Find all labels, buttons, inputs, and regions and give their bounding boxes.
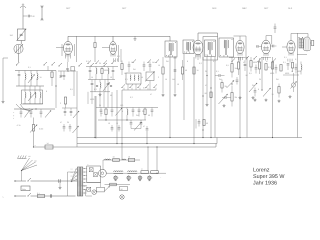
svg-text:0,1: 0,1: [283, 61, 286, 64]
svg-text:60: 60: [33, 15, 35, 18]
svg-text:50: 50: [206, 122, 208, 125]
svg-text:1M: 1M: [235, 67, 238, 70]
svg-text:2M: 2M: [166, 60, 169, 63]
svg-text:50: 50: [110, 94, 112, 97]
svg-text:10: 10: [128, 156, 130, 159]
svg-text:1M: 1M: [100, 112, 103, 115]
svg-text:47: 47: [150, 93, 152, 96]
svg-text:AF7: AF7: [122, 7, 127, 10]
svg-text:10: 10: [116, 122, 118, 125]
svg-text:15: 15: [91, 76, 93, 79]
svg-text:0,1: 0,1: [37, 192, 40, 195]
svg-text:47: 47: [60, 121, 62, 124]
svg-text:5000: 5000: [270, 72, 274, 75]
svg-text:15: 15: [272, 93, 274, 96]
svg-text:0,5: 0,5: [249, 72, 252, 75]
svg-text:5000: 5000: [253, 61, 257, 64]
svg-text:+: +: [118, 177, 119, 180]
svg-text:220: 220: [71, 179, 73, 181]
svg-text:1M: 1M: [152, 61, 155, 64]
svg-text:125: 125: [71, 172, 73, 174]
svg-text:+: +: [131, 177, 132, 180]
svg-text:8: 8: [122, 110, 123, 113]
svg-text:15: 15: [40, 76, 42, 79]
svg-text:0,3: 0,3: [130, 96, 133, 99]
svg-text:+: +: [35, 144, 36, 147]
svg-text:5000: 5000: [285, 72, 289, 75]
svg-text:25: 25: [67, 121, 69, 124]
svg-text:AL4: AL4: [288, 7, 293, 10]
svg-text:3: 3: [232, 80, 233, 83]
svg-text:AF7: AF7: [66, 7, 71, 10]
svg-text:2M: 2M: [252, 84, 255, 87]
svg-text:AB2: AB2: [242, 7, 247, 10]
svg-text:50: 50: [121, 188, 123, 191]
svg-text:Jahr 1936: Jahr 1936: [253, 180, 277, 186]
svg-text:110: 110: [71, 168, 73, 170]
svg-text:Super 395 W: Super 395 W: [253, 174, 285, 180]
svg-text:g: g: [13, 115, 14, 117]
svg-text:50: 50: [185, 69, 187, 72]
svg-text:47: 47: [266, 60, 268, 63]
svg-text:15: 15: [59, 76, 61, 79]
svg-text:15: 15: [158, 64, 160, 67]
svg-text:3: 3: [60, 102, 61, 105]
svg-text:25: 25: [205, 70, 207, 73]
svg-text:10: 10: [177, 83, 179, 86]
svg-text:47: 47: [205, 84, 207, 87]
svg-text:25: 25: [99, 104, 101, 107]
svg-text:150: 150: [71, 175, 73, 177]
svg-text:AF7: AF7: [264, 7, 269, 10]
svg-text:10: 10: [108, 122, 110, 125]
svg-text:8: 8: [258, 88, 259, 91]
svg-text:2M: 2M: [219, 78, 222, 81]
svg-text:3: 3: [158, 76, 159, 79]
svg-text:0,1: 0,1: [125, 78, 128, 81]
svg-text:5000: 5000: [90, 98, 94, 101]
svg-text:+: +: [142, 177, 143, 180]
svg-text:2M: 2M: [136, 114, 139, 117]
svg-text:10: 10: [110, 76, 112, 79]
svg-text:47: 47: [143, 125, 145, 128]
svg-text:Netz: Netz: [22, 188, 26, 191]
svg-text:0,2: 0,2: [199, 62, 202, 65]
svg-text:15: 15: [165, 78, 167, 81]
svg-text:50: 50: [148, 114, 150, 117]
svg-text:0,1: 0,1: [284, 56, 287, 59]
svg-text:25: 25: [99, 62, 101, 65]
svg-text:a: a: [13, 112, 14, 114]
svg-text:5000: 5000: [297, 70, 301, 73]
svg-text:0,3: 0,3: [94, 88, 97, 91]
svg-text:0,1: 0,1: [216, 70, 219, 73]
svg-text:AF3: AF3: [212, 7, 217, 10]
svg-text:15: 15: [141, 76, 143, 79]
svg-text:0,3: 0,3: [117, 55, 120, 58]
svg-text:0,1: 0,1: [213, 60, 216, 63]
svg-text:25: 25: [36, 78, 38, 81]
svg-text:50: 50: [246, 74, 248, 77]
svg-text:5000: 5000: [104, 69, 108, 72]
svg-text:10: 10: [113, 156, 115, 159]
svg-text:47: 47: [243, 61, 245, 64]
svg-text:2M: 2M: [133, 68, 136, 71]
svg-text:50: 50: [205, 92, 207, 95]
svg-text:~: ~: [2, 195, 4, 199]
svg-text:Lorenz: Lorenz: [253, 167, 270, 173]
svg-text:2M: 2M: [235, 96, 238, 99]
svg-text:100: 100: [120, 104, 123, 107]
svg-text:0,2: 0,2: [268, 66, 271, 69]
svg-text:2M: 2M: [276, 78, 279, 81]
svg-text:15: 15: [131, 61, 133, 64]
svg-text:0,2: 0,2: [86, 60, 89, 63]
svg-text:0,5: 0,5: [226, 64, 229, 67]
svg-text:15: 15: [291, 70, 293, 73]
svg-text:0,5: 0,5: [143, 87, 146, 90]
svg-text:8: 8: [46, 90, 47, 93]
svg-text:8: 8: [187, 60, 188, 63]
svg-text:0,1: 0,1: [295, 58, 298, 61]
svg-text:25: 25: [259, 78, 261, 81]
svg-text:0,5: 0,5: [70, 88, 73, 91]
svg-text:2M: 2M: [142, 110, 145, 113]
svg-text:15: 15: [197, 69, 199, 72]
svg-text:+: +: [152, 177, 153, 180]
svg-text:1M: 1M: [172, 78, 175, 81]
svg-text:0,5M: 0,5M: [39, 128, 44, 131]
svg-text:0,1: 0,1: [28, 66, 31, 69]
